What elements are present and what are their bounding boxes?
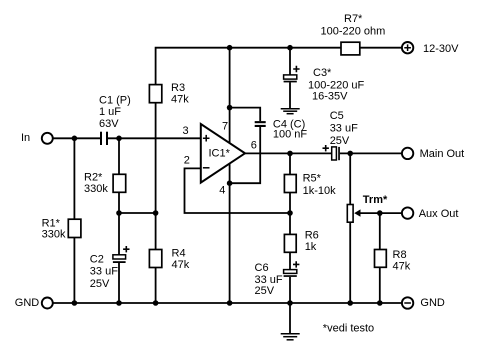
svg-text:47k: 47k (171, 94, 189, 106)
svg-text:1k: 1k (305, 241, 317, 253)
node rail pin4 (227, 300, 233, 306)
svg-text:*vedi testo: *vedi testo (323, 323, 374, 335)
terminal GND right (402, 297, 413, 308)
svg-text:In: In (21, 132, 30, 144)
wire R2-R4 bias connector (119, 212, 156, 214)
wire R2 column top (118, 138, 120, 174)
node output R5 (287, 151, 293, 157)
svg-text:100-220 uF: 100-220 uF (308, 79, 365, 91)
svg-text:330k: 330k (42, 229, 66, 241)
node rail R8 (377, 300, 383, 306)
resistor R7 (341, 42, 360, 55)
wire pin 7 column (229, 48, 231, 144)
svg-text:R4: R4 (172, 248, 186, 260)
svg-text:330k: 330k (84, 183, 108, 195)
terminal In (42, 133, 53, 144)
svg-text:4: 4 (219, 185, 225, 197)
wire R8 column (379, 213, 381, 249)
terminal Aux Out (402, 207, 413, 218)
wire R6 to C6 (289, 252, 291, 269)
resistor R1 (68, 219, 81, 237)
trimmer Trm body (347, 205, 353, 223)
trimmer wiper arrow (354, 209, 360, 216)
wire C2 to ground rail (118, 263, 120, 303)
node R1 input (72, 136, 78, 142)
svg-text:Aux Out: Aux Out (419, 208, 459, 220)
svg-text:3: 3 (183, 125, 189, 137)
svg-text:12-30V: 12-30V (423, 43, 459, 55)
svg-text:2: 2 (184, 155, 190, 167)
wire R2 bottom to C2 (118, 192, 120, 255)
svg-text:16-35V: 16-35V (312, 91, 348, 103)
node rail trimmer (347, 300, 353, 306)
svg-text:R5*: R5* (303, 173, 322, 185)
svg-text:25V: 25V (330, 135, 350, 147)
resistor R6 (284, 234, 296, 252)
wire top rail right of R7 (360, 47, 402, 49)
op-amp U1 triangle (201, 124, 245, 183)
svg-text:25V: 25V (90, 278, 110, 290)
wire op-amp output to C5 (245, 152, 332, 154)
wire R5 column (289, 153, 291, 174)
svg-text:7: 7 (222, 121, 228, 133)
node pin7 top rail (227, 45, 233, 51)
svg-text:Trm*: Trm* (363, 194, 388, 206)
node R2 bottom (116, 210, 122, 216)
wire divider node to R4 (155, 213, 157, 250)
node feedback R5 R6 (287, 210, 293, 216)
node Aux R8 (377, 210, 383, 216)
node C3 top rail (287, 45, 293, 51)
svg-text:R8: R8 (393, 249, 407, 261)
wire R1 column (73, 138, 75, 219)
resistor R8 (375, 250, 387, 268)
svg-text:GND: GND (420, 297, 445, 309)
svg-text:C5: C5 (330, 110, 344, 122)
wire C3 to ground symbol (289, 82, 291, 108)
wire trimmer wiper to Aux node (359, 212, 380, 214)
svg-text:C1 (P): C1 (P) (99, 94, 131, 106)
op-amp minus input marker (203, 167, 210, 169)
wire pin 7 to C4 (230, 108, 261, 122)
wire In terminal to C1 (53, 137, 101, 139)
svg-text:33 uF: 33 uF (255, 274, 283, 286)
node output C5 trimmer (347, 151, 353, 157)
wire C6 to ground rail (289, 277, 291, 303)
terminal GND left (42, 298, 53, 309)
wire R5 to R6 (289, 193, 291, 235)
wire top rail left of R7 (156, 48, 341, 85)
svg-text:6: 6 (251, 140, 257, 152)
wire C3 column from rail (289, 48, 291, 75)
node pin4 C4 return (227, 180, 233, 186)
wire bottom ground stem (289, 303, 291, 334)
wire pin 4 column (229, 164, 231, 304)
svg-text:25V: 25V (255, 285, 275, 297)
svg-text:33 uF: 33 uF (90, 266, 118, 278)
svg-text:IC1*: IC1* (209, 148, 231, 160)
wire R1 bottom to ground rail (73, 238, 75, 304)
svg-text:R7*: R7* (344, 13, 363, 25)
svg-text:1k-10k: 1k-10k (303, 185, 337, 197)
wire pin 2 feedback path (185, 168, 291, 213)
capacitor C4 (255, 121, 266, 127)
svg-text:Main Out: Main Out (420, 148, 465, 160)
terminal Main Out (402, 148, 413, 159)
node divider R3 R4 (153, 210, 159, 216)
wire bottom ground rail (53, 302, 402, 304)
wire C5 to Main Out (340, 152, 402, 154)
svg-text:R3: R3 (171, 82, 185, 94)
svg-text:1 uF: 1 uF (99, 106, 121, 118)
node rail R1 (72, 300, 78, 306)
svg-text:100-220 ohm: 100-220 ohm (321, 26, 386, 38)
svg-text:R2*: R2* (84, 172, 103, 184)
wire trimmer column bottom (349, 222, 351, 303)
wire C1 to op-amp pin 3 (108, 137, 201, 139)
wire Aux node to Aux Out (380, 212, 402, 214)
capacitor C5 (323, 145, 340, 160)
wire R3 bottom to divider node (155, 103, 157, 213)
svg-text:C6: C6 (255, 262, 269, 274)
node pin7 C4 (227, 105, 233, 111)
wire R4 to ground rail (155, 268, 157, 304)
wire R8 to ground rail (379, 267, 381, 303)
capacitor C6 (284, 261, 300, 277)
resistor R2 (113, 174, 126, 192)
svg-text:63V: 63V (99, 118, 119, 130)
wire trimmer column top (349, 153, 351, 204)
svg-text:R6: R6 (305, 230, 319, 242)
ground symbol under C3 (281, 109, 300, 114)
capacitor C2 (113, 246, 130, 263)
svg-text:100 nF: 100 nF (273, 128, 308, 140)
node rail C6 ground (287, 300, 293, 306)
wire C4 return to pin 4 node (230, 127, 261, 183)
op-amp plus input marker (203, 135, 210, 142)
svg-text:C2: C2 (90, 254, 104, 266)
terminal +12-30V (402, 42, 413, 53)
svg-text:33 uF: 33 uF (330, 123, 358, 135)
resistor R3 (149, 85, 161, 103)
svg-text:47k: 47k (393, 260, 411, 272)
node rail C2 (116, 300, 122, 306)
node C1 out (116, 136, 122, 142)
svg-text:C3*: C3* (313, 67, 332, 79)
svg-text:47k: 47k (172, 259, 190, 271)
capacitor C3 (284, 66, 300, 83)
ground symbol bottom (281, 334, 300, 340)
node rail R4 (153, 300, 159, 306)
capacitor C1 (100, 132, 108, 145)
resistor R5 (284, 175, 296, 193)
svg-text:GND: GND (15, 297, 40, 309)
resistor R4 (149, 250, 161, 268)
